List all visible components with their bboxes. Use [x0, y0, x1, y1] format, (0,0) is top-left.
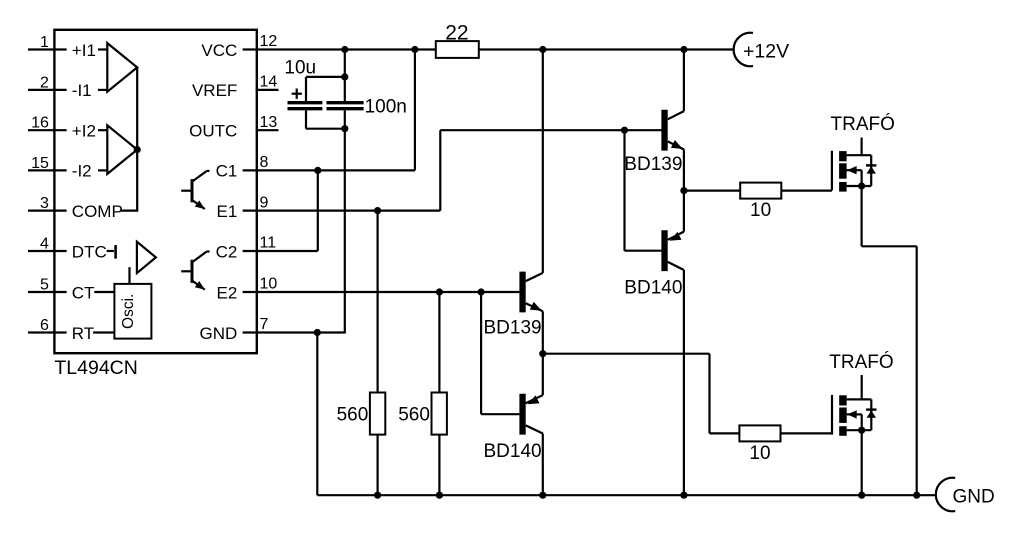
svg-text:10u: 10u: [284, 58, 316, 79]
svg-text:DTC: DTC: [72, 242, 107, 261]
svg-text:RT: RT: [72, 324, 94, 343]
svg-text:COMP: COMP: [72, 202, 123, 221]
svg-text:10: 10: [750, 200, 771, 221]
svg-text:VREF: VREF: [192, 81, 237, 100]
svg-text:TRAFÓ: TRAFÓ: [829, 351, 893, 373]
svg-text:TL494CN: TL494CN: [54, 357, 137, 379]
svg-text:12: 12: [260, 33, 278, 50]
svg-text:8: 8: [260, 154, 269, 171]
svg-text:BD140: BD140: [484, 441, 542, 462]
svg-text:BD140: BD140: [624, 277, 682, 298]
svg-text:11: 11: [260, 235, 277, 252]
svg-text:10: 10: [749, 443, 770, 464]
svg-text:-I1: -I1: [72, 81, 92, 100]
svg-text:E2: E2: [217, 283, 238, 302]
svg-text:+I2: +I2: [72, 122, 96, 141]
svg-text:-I2: -I2: [72, 162, 92, 181]
svg-text:+I1: +I1: [72, 41, 96, 60]
svg-text:1: 1: [40, 34, 49, 51]
svg-text:C2: C2: [216, 242, 238, 261]
svg-text:560: 560: [337, 404, 369, 425]
svg-text:22: 22: [445, 21, 468, 44]
svg-text:GND: GND: [953, 487, 995, 508]
svg-text:4: 4: [40, 235, 49, 252]
svg-text:2: 2: [40, 74, 49, 91]
svg-text:100n: 100n: [365, 97, 407, 118]
svg-text:14: 14: [260, 74, 278, 91]
svg-text:3: 3: [40, 195, 49, 212]
svg-text:+12V: +12V: [743, 40, 789, 62]
svg-text:TRAFÓ: TRAFÓ: [831, 113, 895, 135]
svg-text:CT: CT: [72, 283, 95, 302]
svg-text:16: 16: [31, 115, 49, 132]
svg-text:9: 9: [260, 194, 269, 211]
svg-text:C1: C1: [216, 162, 238, 181]
svg-text:13: 13: [260, 114, 278, 131]
svg-text:BD139: BD139: [624, 154, 682, 175]
svg-text:GND: GND: [200, 324, 238, 343]
svg-text:E1: E1: [217, 202, 238, 221]
svg-text:Osci.: Osci.: [120, 294, 137, 329]
svg-text:OUTC: OUTC: [189, 122, 237, 141]
svg-text:15: 15: [31, 155, 49, 172]
svg-text:BD139: BD139: [484, 318, 542, 339]
svg-text:10: 10: [260, 276, 278, 293]
svg-text:560: 560: [398, 404, 430, 425]
svg-text:VCC: VCC: [201, 41, 237, 60]
svg-text:5: 5: [40, 276, 49, 293]
svg-text:7: 7: [260, 316, 269, 333]
svg-text:6: 6: [40, 317, 49, 334]
